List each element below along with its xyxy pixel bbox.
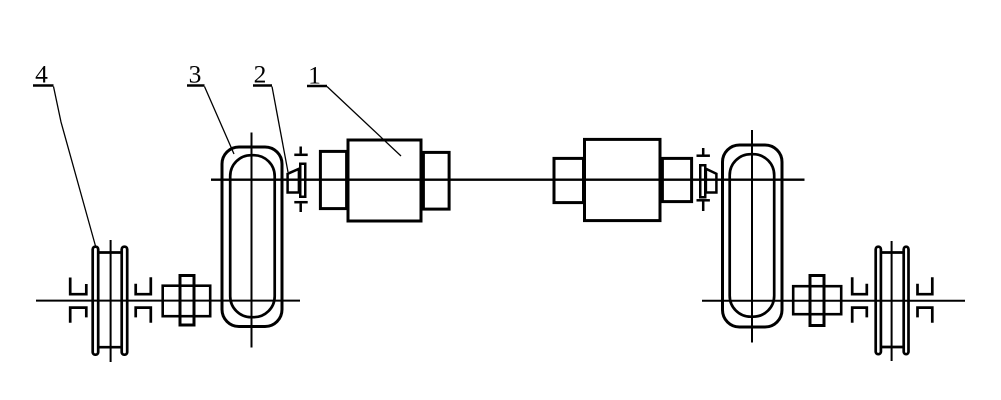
svg-text:2: 2	[254, 59, 267, 88]
svg-text:4: 4	[35, 59, 48, 88]
svg-text:3: 3	[189, 59, 202, 88]
svg-text:1: 1	[308, 60, 321, 89]
